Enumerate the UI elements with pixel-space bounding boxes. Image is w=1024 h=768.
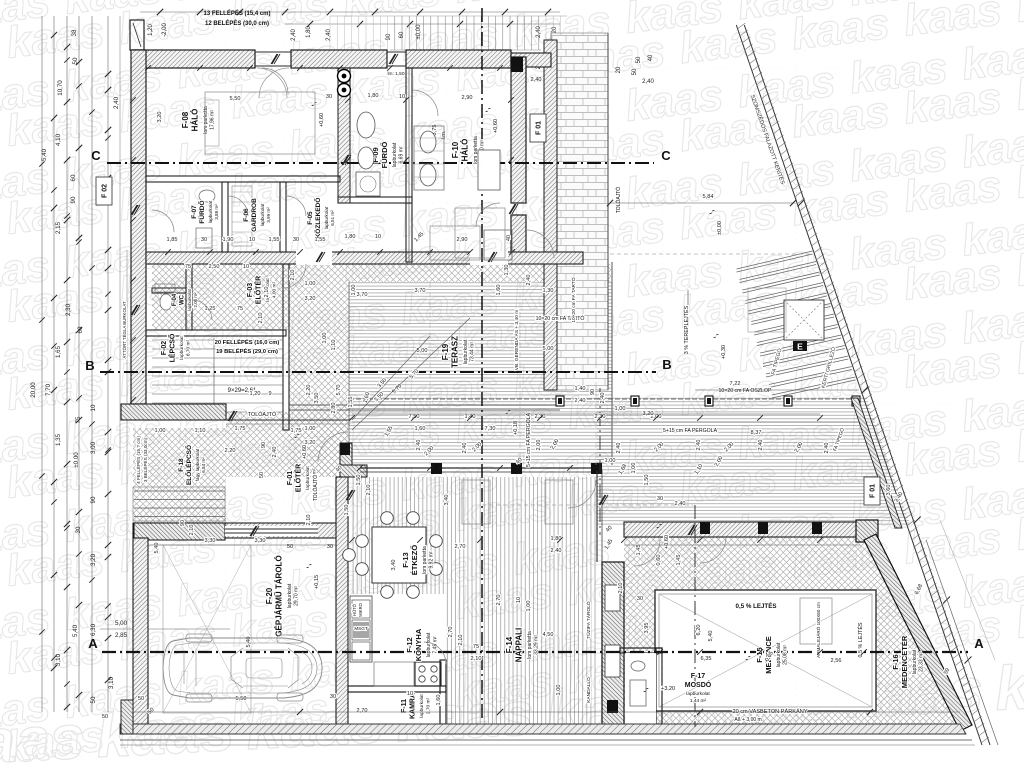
svg-text:2,70: 2,70 [496, 595, 502, 606]
armalejaro dashed rect [800, 598, 832, 644]
svg-text:2,40: 2,40 [551, 548, 562, 554]
svg-text:1,35: 1,35 [55, 433, 62, 446]
dining table F-13 [343, 512, 443, 599]
svg-text:3,60: 3,60 [886, 485, 892, 496]
svg-text:lm: 1,50: lm: 1,50 [387, 71, 404, 77]
svg-text:F-12: F-12 [405, 637, 414, 652]
svg-text:3,10: 3,10 [108, 676, 115, 689]
svg-text:90: 90 [70, 196, 77, 203]
svg-text:3,40: 3,40 [391, 560, 397, 571]
stairs F-02 treads [152, 338, 560, 418]
svg-text:Aß + 3,00 m: Aß + 3,00 m [734, 717, 761, 723]
svg-text:KÖZLEKEDŐ: KÖZLEKEDŐ [313, 198, 322, 239]
svg-text:0,60: 0,60 [656, 555, 662, 566]
svg-text:1,55: 1,55 [269, 237, 280, 243]
svg-text:TOLÓAJTÓ: TOLÓAJTÓ [312, 475, 319, 501]
svg-text:E: E [797, 342, 803, 352]
partition bath west [338, 68, 350, 203]
fence neighbour boundary [736, 23, 990, 745]
svg-text:F-14: F-14 [505, 636, 514, 653]
svg-text:MEDENCETÉR: MEDENCETÉR [900, 635, 909, 688]
level mark +0,15 [306, 564, 312, 568]
level mark +3,20 [643, 688, 649, 692]
svg-text:F-02: F-02 [161, 341, 168, 356]
svg-text:8,37: 8,37 [751, 430, 762, 436]
svg-text:lapburkolat: lapburkolat [392, 142, 398, 167]
svg-text:1,45: 1,45 [676, 555, 682, 566]
svg-text:ELŐTÉR: ELŐTÉR [254, 276, 263, 304]
post 1 [431, 463, 442, 474]
level mark +0,60 [485, 108, 491, 112]
svg-text:10×20 cm FA OSZLOP: 10×20 cm FA OSZLOP [719, 388, 772, 394]
svg-text:3,99 m²: 3,99 m² [266, 207, 271, 223]
garage inner dashed [163, 545, 251, 713]
door arcs entry top [257, 68, 289, 98]
svg-text:lapburkolat: lapburkolat [287, 583, 293, 608]
svg-text:9,92 m²: 9,92 m² [429, 551, 435, 568]
svg-text:30: 30 [326, 94, 332, 100]
terrace diagonal braces [352, 336, 430, 420]
svg-text:3,20: 3,20 [90, 553, 97, 566]
dim 722 line [695, 389, 859, 391]
bath cabinets [484, 230, 512, 260]
svg-text:2,10: 2,10 [306, 515, 312, 526]
bed F-10 [455, 208, 505, 258]
room F-06 GARDROB [243, 198, 271, 232]
svg-text:GÉPJÁRMŰ TÁROLÓ: GÉPJÁRMŰ TÁROLÓ [275, 555, 284, 636]
svg-text:6,84 m²: 6,84 m² [201, 457, 206, 473]
label box F01 right [864, 477, 880, 505]
garage door opening [225, 526, 318, 536]
svg-text:6,51 m²: 6,51 m² [330, 210, 335, 226]
room F-14 NAPPALI [505, 628, 540, 663]
svg-text:60: 60 [77, 326, 84, 333]
interior dimension numbers [102, 93, 951, 720]
svg-text:2,10: 2,10 [458, 635, 464, 646]
svg-text:1,50: 1,50 [644, 475, 650, 486]
svg-text:1,50: 1,50 [356, 475, 362, 486]
svg-text:4,00 m²: 4,00 m² [271, 281, 277, 298]
room F-08 HALO [181, 106, 216, 134]
posts wall living north [360, 467, 600, 469]
svg-text:2,40: 2,40 [642, 79, 654, 85]
svg-text:TOLÓAJTÓ: TOLÓAJTÓ [615, 187, 622, 213]
svg-text:3,20: 3,20 [305, 440, 316, 446]
svg-text:lapburkolat: lapburkolat [187, 288, 192, 310]
wall pool diagonal [864, 534, 972, 731]
partition wc east [186, 264, 192, 330]
dim row garage [148, 544, 336, 546]
partition stairs north [146, 330, 286, 336]
svg-text:1,55: 1,55 [315, 237, 326, 243]
svg-text:90: 90 [90, 496, 97, 503]
svg-text:F-13: F-13 [401, 552, 410, 567]
svg-text:6,35: 6,35 [701, 656, 712, 662]
fireplace boxes [605, 585, 620, 611]
svg-text:lapburkolat: lapburkolat [686, 691, 710, 697]
svg-text:2,40: 2,40 [462, 443, 468, 454]
partition f06 f05 [280, 182, 286, 252]
stove [415, 662, 441, 686]
svg-text:lapburkolat: lapburkolat [426, 632, 432, 657]
svg-text:5,00: 5,00 [543, 346, 554, 352]
door gap corridor 1 [296, 251, 332, 265]
svg-text:5,40: 5,40 [708, 631, 714, 642]
roof dashed rects [462, 480, 490, 524]
terrace F-19 decking [349, 282, 612, 465]
svg-text:ELŐLÉPCSŐ: ELŐLÉPCSŐ [184, 445, 193, 485]
section line vertical [481, 8, 483, 722]
svg-text:lapburkolat: lapburkolat [419, 694, 425, 718]
svg-text:WC: WC [180, 294, 186, 305]
svg-text:10: 10 [407, 691, 413, 697]
svg-text:2,70: 2,70 [448, 627, 454, 638]
garden grill paving [737, 251, 856, 398]
hall tile hatch [152, 262, 289, 330]
wall top exterior far right [511, 53, 551, 67]
svg-text:4,10: 4,10 [55, 133, 62, 146]
svg-text:2,40: 2,40 [113, 96, 120, 109]
svg-text:+0,60: +0,60 [319, 113, 325, 127]
svg-text:20 FELLÉPÉS (16,0 cm): 20 FELLÉPÉS (16,0 cm) [215, 338, 280, 346]
svg-text:C: C [91, 148, 101, 163]
svg-text:10: 10 [249, 237, 255, 243]
entry corridor tile hatch [289, 262, 349, 477]
svg-text:+0,60: +0,60 [302, 445, 308, 459]
svg-text:6,20: 6,20 [696, 625, 702, 636]
room F-18 ELOLEPCSO [178, 445, 206, 485]
svg-text:+3,20: +3,20 [661, 686, 675, 692]
svg-text:F-11: F-11 [401, 699, 408, 713]
svg-text:75: 75 [185, 264, 191, 270]
dim 584 line [610, 202, 795, 204]
svg-text:F-16: F-16 [891, 654, 900, 669]
svg-text:+0,18: +0,18 [513, 421, 519, 435]
svg-text:F-18: F-18 [178, 458, 185, 472]
construction guide lines horizontal [110, 50, 960, 724]
svg-text:2,30: 2,30 [65, 303, 72, 316]
svg-text:F 01: F 01 [536, 121, 543, 135]
wall corridor main [146, 252, 583, 264]
svg-text:5,00: 5,00 [115, 620, 128, 627]
svg-text:7,30: 7,30 [485, 426, 496, 432]
svg-text:3,70: 3,70 [415, 288, 426, 294]
svg-text:-2,00: -2,00 [162, 23, 168, 37]
svg-text:73,44 m²: 73,44 m² [470, 342, 476, 362]
door swing arcs [152, 68, 726, 664]
room F-19 TERASZ [441, 336, 476, 368]
pool terrace tile hatch [624, 537, 968, 727]
section line B [100, 371, 656, 373]
svg-text:50: 50 [259, 472, 265, 478]
svg-text:1,50: 1,50 [344, 505, 350, 516]
room F-10 HALO [451, 136, 486, 164]
svg-text:+0,60: +0,60 [664, 535, 670, 549]
wall top exterior left [133, 50, 255, 68]
svg-text:2,40: 2,40 [291, 29, 297, 41]
wall top exterior right [406, 50, 511, 68]
svg-text:10: 10 [399, 94, 405, 100]
svg-text:2,70: 2,70 [455, 544, 466, 550]
neighbour wall band [544, 40, 557, 390]
svg-text:kaas: kaas [0, 703, 86, 768]
fireplace wall [602, 562, 624, 727]
svg-text:1,60: 1,60 [436, 695, 442, 706]
wall garage west [133, 538, 148, 724]
svg-text:5,50: 5,50 [236, 696, 247, 702]
svg-text:8,70 m²: 8,70 m² [185, 339, 191, 356]
svg-text:75: 75 [473, 644, 479, 650]
svg-text:1,80: 1,80 [345, 234, 356, 240]
wall right of top block [511, 57, 526, 203]
bottom left corner block [121, 700, 133, 734]
svg-text:ÉTKEZŐ: ÉTKEZŐ [410, 545, 419, 576]
svg-text:LÉPCSŐ: LÉPCSŐ [168, 333, 177, 362]
wall garage north [133, 523, 348, 538]
svg-text:60: 60 [70, 174, 77, 181]
svg-text:2,40: 2,40 [416, 440, 422, 451]
svg-text:30: 30 [637, 596, 643, 602]
wall nappali east [596, 470, 598, 562]
pool F-15 basin [659, 594, 872, 707]
svg-text:1,20: 1,20 [148, 24, 154, 36]
svg-text:5,40: 5,40 [72, 624, 79, 637]
svg-text:F-07: F-07 [191, 205, 198, 219]
svg-text:2,50: 2,50 [209, 264, 220, 270]
entry lower tile hatch [226, 412, 348, 477]
svg-text:5,70: 5,70 [336, 385, 342, 396]
svg-text:1,75: 1,75 [291, 428, 302, 434]
wall pool north [624, 522, 864, 537]
car in garage [163, 634, 322, 702]
partition wc north [152, 288, 186, 293]
dim row pool [624, 544, 860, 546]
svg-text:1,80: 1,80 [306, 26, 312, 38]
svg-text:1,90: 1,90 [223, 237, 234, 243]
label box F01 top [530, 114, 546, 142]
svg-text:lapburkolat: lapburkolat [776, 642, 782, 667]
corner pool NE [856, 520, 878, 542]
svg-text:1,20: 1,20 [250, 391, 261, 397]
corner block top right [511, 57, 523, 72]
opening slash marks [271, 54, 280, 64]
door gap corridor 2 [470, 251, 508, 265]
svg-text:30: 30 [330, 694, 336, 700]
svg-text:+0,60: +0,60 [493, 119, 499, 133]
mosdo walls [620, 648, 662, 653]
svg-text:F-17: F-17 [691, 673, 706, 680]
svg-text:HŰTŐ: HŰTŐ [352, 603, 357, 616]
svg-text:2,85: 2,85 [115, 632, 128, 639]
svg-text:C: C [661, 148, 671, 163]
svg-text:2,10: 2,10 [189, 525, 195, 536]
section line vertical pergola [599, 388, 601, 535]
svg-text:2,40: 2,40 [575, 398, 586, 404]
svg-text:7,22: 7,22 [730, 381, 741, 387]
svg-text:10: 10 [90, 404, 97, 411]
room F-04 WC [172, 288, 198, 310]
svg-text:F 01: F 01 [870, 484, 877, 498]
svg-text:2,40: 2,40 [526, 275, 532, 286]
svg-text:A: A [974, 636, 984, 651]
svg-text:30: 30 [75, 526, 82, 533]
svg-text:TERASZ: TERASZ [451, 336, 460, 368]
svg-text:30: 30 [201, 237, 207, 243]
counter konyha south [374, 662, 414, 686]
entry steps wall [121, 404, 226, 420]
wall kamra east [440, 660, 446, 724]
svg-text:13 FELLÉPÉS (15,4 cm): 13 FELLÉPÉS (15,4 cm) [203, 9, 270, 17]
svg-text:fagy lapburkolat: fagy lapburkolat [195, 448, 200, 481]
svg-text:90: 90 [386, 33, 392, 40]
svg-text:2,40: 2,40 [600, 393, 606, 404]
svg-text:lapburkolat: lapburkolat [912, 649, 918, 674]
svg-text:2,10: 2,10 [471, 656, 482, 662]
svg-text:1,60: 1,60 [415, 426, 426, 432]
svg-text:5,50: 5,50 [230, 96, 241, 102]
svg-text:1,10: 1,10 [195, 428, 206, 434]
room F-16 MEDENCETER [891, 635, 925, 688]
svg-text:20: 20 [616, 66, 622, 73]
front steps F-18 [133, 487, 225, 521]
svg-text:F-03: F-03 [247, 283, 254, 298]
partition f07 f06 [222, 182, 228, 252]
svg-text:20: 20 [552, 26, 558, 33]
bottom boundary wall [120, 724, 966, 734]
svg-text:HÁLÓ: HÁLÓ [461, 139, 470, 162]
wall top lintel doors [255, 51, 291, 53]
svg-text:F-08: F-08 [181, 111, 190, 128]
svg-text:75: 75 [237, 306, 243, 312]
svg-text:1,00: 1,00 [605, 458, 616, 464]
svg-text:MIKRO: MIKRO [358, 602, 363, 616]
level mark +0,60 [294, 434, 300, 438]
svg-text:2,40: 2,40 [675, 501, 686, 507]
svg-text:ELŐTÉR: ELŐTÉR [294, 464, 303, 492]
svg-text:1,80: 1,80 [368, 93, 379, 99]
pergola edge beam [851, 398, 902, 528]
level mark +0,30 [713, 334, 719, 338]
svg-text:10: 10 [375, 234, 381, 240]
svg-text:4 FELLÉPÉS (15,? cm): 4 FELLÉPÉS (15,? cm) [135, 436, 141, 484]
level mark -0,65 [745, 656, 751, 660]
svg-text:3,30: 3,30 [205, 538, 216, 544]
svg-text:F-05: F-05 [307, 211, 314, 225]
boiler circles [338, 70, 351, 83]
masonry band neighbour wall [551, 33, 608, 390]
svg-text:5+15 cm FA PERGOLA: 5+15 cm FA PERGOLA [526, 412, 532, 467]
partition entry east [283, 264, 289, 430]
svg-text:7,70: 7,70 [45, 383, 52, 396]
room F-05 KOZLEKEDO [307, 198, 335, 239]
svg-text:5,84: 5,84 [703, 194, 714, 200]
section line vertical pool [694, 505, 696, 727]
svg-text:kaas: kaas [1013, 0, 1024, 32]
wall right lower piece [511, 215, 526, 262]
svg-text:6,30: 6,30 [90, 623, 97, 636]
svg-text:50: 50 [636, 56, 642, 63]
svg-text:2,15: 2,15 [55, 221, 62, 234]
svg-text:±0,00: ±0,00 [416, 24, 422, 40]
svg-text:1,10: 1,10 [331, 340, 337, 351]
room F-20 GARAGE [265, 555, 300, 636]
svg-text:2,70: 2,70 [357, 708, 368, 714]
svg-text:B: B [662, 357, 671, 372]
svg-text:12 BELÉPÉS (30,0 cm): 12 BELÉPÉS (30,0 cm) [205, 19, 269, 27]
svg-text:38: 38 [71, 29, 78, 36]
svg-text:1,55: 1,55 [348, 397, 354, 408]
svg-text:1,40: 1,40 [465, 414, 476, 420]
svg-text:A: A [88, 636, 98, 651]
svg-text:lapburkolat: lapburkolat [208, 200, 213, 223]
svg-text:3,40: 3,40 [444, 495, 450, 506]
partition bath east [406, 68, 412, 262]
svg-text:F-19: F-19 [441, 343, 450, 360]
svg-text:F-04: F-04 [172, 293, 178, 306]
f07 fixtures [199, 190, 215, 202]
level mark ±0,00 [709, 210, 715, 214]
room F-15 MEDENCE [755, 636, 789, 674]
svg-text:MSGT: MSGT [354, 626, 367, 631]
level mark +0,60 [656, 524, 662, 528]
pergola deck field [597, 396, 911, 527]
svg-text:2,56: 2,56 [831, 658, 842, 664]
svg-text:FÜRDŐ: FÜRDŐ [380, 142, 389, 169]
svg-text:2,40: 2,40 [272, 447, 278, 458]
svg-text:50: 50 [90, 696, 97, 703]
svg-text:FÜRDŐ: FÜRDŐ [197, 200, 206, 223]
terrace top tile strip [349, 264, 612, 282]
svg-text:+0,30: +0,30 [721, 345, 727, 359]
sliding door lower [226, 419, 350, 421]
room F-12 KONYHA [405, 628, 439, 661]
left dimension numbers [30, 29, 230, 703]
svg-text:29,70 m²: 29,70 m² [294, 586, 300, 606]
svg-text:±0,00: ±0,00 [717, 221, 723, 235]
svg-text:F-01: F-01 [287, 471, 294, 486]
svg-text:1,80: 1,80 [551, 536, 562, 542]
svg-text:F-10: F-10 [451, 141, 460, 158]
svg-text:5+15 cm FA PERGOLA: 5+15 cm FA PERGOLA [663, 428, 718, 434]
svg-text:1,45: 1,45 [636, 545, 642, 556]
wall left exterior [131, 50, 146, 404]
post 2 [511, 463, 522, 474]
kitchen counter [350, 596, 372, 662]
label box F02 [96, 177, 112, 205]
svg-text:1,75: 1,75 [235, 426, 246, 432]
pergola posts row [349, 396, 860, 406]
svg-text:1,44 m²: 1,44 m² [690, 698, 707, 704]
wall garage east [336, 477, 348, 724]
room F-09 FURDO [371, 142, 405, 169]
svg-text:0,5 % LEJTÉS: 0,5 % LEJTÉS [736, 602, 777, 610]
svg-text:F-06: F-06 [243, 208, 250, 222]
svg-text:3,95: 3,95 [644, 623, 650, 634]
room F-13 ETKEZO [401, 545, 435, 576]
svg-text:2,10: 2,10 [258, 313, 264, 324]
svg-text:7,50: 7,50 [409, 414, 420, 420]
dim 837 line [352, 421, 860, 423]
svg-text:F 02: F 02 [102, 184, 109, 198]
wall entry west corner [340, 443, 352, 477]
svg-text:50: 50 [72, 57, 79, 64]
living-dining wooden floor [348, 477, 597, 724]
left dimension chain lines [42, 16, 127, 712]
dim row bottom [133, 711, 960, 713]
pool north posts [700, 522, 710, 534]
room F-01 ELOTER [287, 464, 317, 492]
svg-text:lapburkolat: lapburkolat [463, 339, 469, 364]
